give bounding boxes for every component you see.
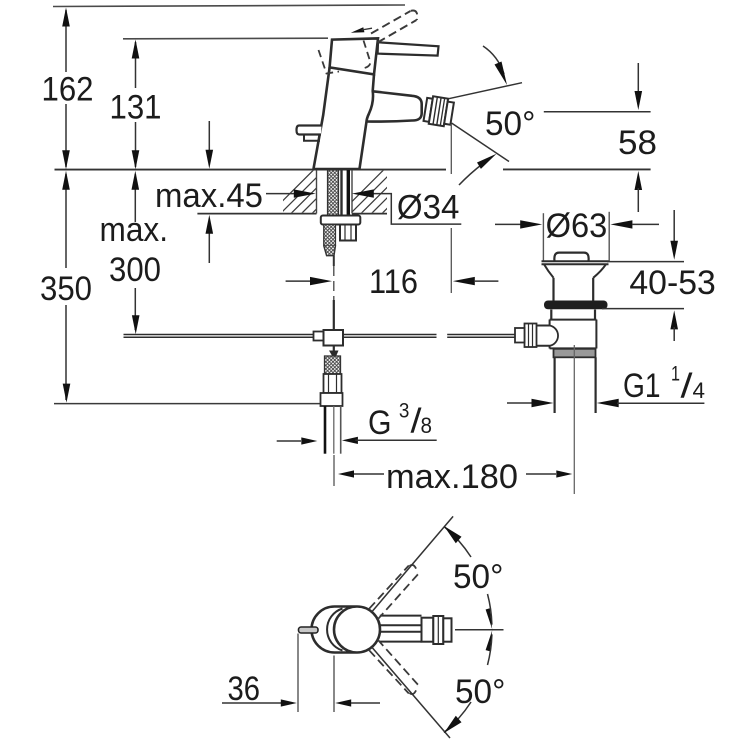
braided hose below flange [324,225,336,246]
side port tube [537,326,550,346]
svg-text:Ø34: Ø34 [397,189,460,227]
radial line lower [372,647,450,738]
waste collar ring [554,349,596,358]
top view aerator [422,618,434,642]
dimension 58 [618,63,657,212]
waste lower body [550,320,597,349]
svg-text:Ø63: Ø63 [546,207,608,245]
shank flange washer [321,216,361,225]
pop-up rod horizontal [124,335,515,338]
shank threaded rod [340,170,342,216]
svg-text:116: 116 [369,263,418,301]
dimension 40-53 [602,210,716,341]
faucet body left edge [314,67,330,168]
dimension max.300 [100,171,169,334]
svg-text:50°: 50° [453,558,503,596]
supply tube G3/8 [324,406,327,454]
slab hatch right [340,170,426,214]
hose end reference line [54,403,321,405]
rod below tee [333,346,335,357]
svg-text:50°: 50° [455,673,505,711]
svg-text:/: / [681,367,694,405]
aerator extension line [450,124,452,293]
dimension Ø63 [495,207,659,261]
dashed lever position lower [369,640,418,695]
line B lower [452,123,510,162]
radial line upper [372,516,453,612]
arc arrow lower [459,164,483,186]
hose extension line [333,455,335,486]
top view inner arc [327,609,342,651]
dimension G 3/8 [277,400,437,445]
svg-text:max.: max. [100,211,169,249]
spout [366,91,421,121]
svg-text:36: 36 [228,670,261,708]
dimension Ø34 leader [352,189,462,227]
svg-text:3: 3 [399,400,410,423]
waste upper body [552,278,554,301]
svg-text:58: 58 [618,124,657,162]
50째 spray angle (side view) [449,46,651,185]
top view body outline [312,607,381,653]
waste rubber seal [544,301,608,310]
svg-text:40-53: 40-53 [629,264,715,302]
dimension 131 [110,40,162,170]
svg-text:162: 162 [42,71,94,109]
svg-text:50°: 50° [485,105,535,143]
svg-text:131: 131 [110,89,162,127]
line A upper [449,83,522,99]
mounting hole edges [316,170,318,214]
faucet body right edge with spout junction [360,74,375,168]
tailpipe centreline / max180 extension [573,345,575,494]
dimension 162 [42,8,94,170]
dimension 350 [40,171,92,403]
svg-text:G: G [368,404,392,442]
pop-up knob on body [297,126,322,135]
pop-up waste flange knob [554,253,588,261]
svg-text:300: 300 [109,251,161,289]
dimension 116 [286,263,499,301]
top view lever neck [380,616,439,642]
hose centre dashed [333,266,335,300]
dashed raised lever [371,10,417,42]
countertop surface line [55,168,651,170]
svg-text:max.180: max.180 [386,458,518,496]
waste tailpipe [553,357,555,413]
slab bottom reference line [197,213,387,215]
dimension G1 1/4 [507,363,705,408]
dashed rotated cap [319,41,371,74]
waste side port arc [550,326,559,346]
aerator [423,95,454,127]
handle cap [330,38,378,74]
rod tee connector [314,332,324,341]
shank braided hose in hole [328,170,339,218]
arc arrow upper [483,46,504,74]
hose funnel top [329,351,339,361]
waste flange neck [544,264,554,278]
dashed lever position upper [369,565,418,620]
top view pop-up pin [299,627,319,633]
pop-up rod knob (knurled) [525,324,537,348]
svg-text:1: 1 [671,363,680,386]
dimension max.45 leader [155,177,316,215]
ref line cap top [123,37,328,40]
slab hatch left [270,170,356,214]
line from label to 58 [544,111,651,113]
pop-up rod vertical [333,300,335,330]
dimension 36 [222,634,380,713]
hose end tip [333,256,335,266]
faucet base line [313,168,361,170]
svg-text:8: 8 [421,413,433,438]
mounting hex nut [340,225,356,241]
dimension max.180 [338,458,572,496]
check valve braid [325,356,341,374]
svg-text:max.45: max.45 [155,177,263,215]
dimension max.45 thickness arrows [206,121,214,263]
svg-text:350: 350 [40,270,92,308]
svg-text:4: 4 [693,378,706,403]
waste flange rim [542,261,609,264]
waste body below seal [551,310,595,320]
lever bar [378,42,439,55]
handle swing arrow [351,27,372,33]
svg-text:G1: G1 [623,367,661,405]
check valve body [324,374,342,393]
arc upper 50 deg [444,527,471,558]
check valve nut [321,393,343,406]
arc lower 50 deg [444,702,471,733]
axis line right [455,629,504,631]
ref line top (max handle height) [53,5,405,7]
